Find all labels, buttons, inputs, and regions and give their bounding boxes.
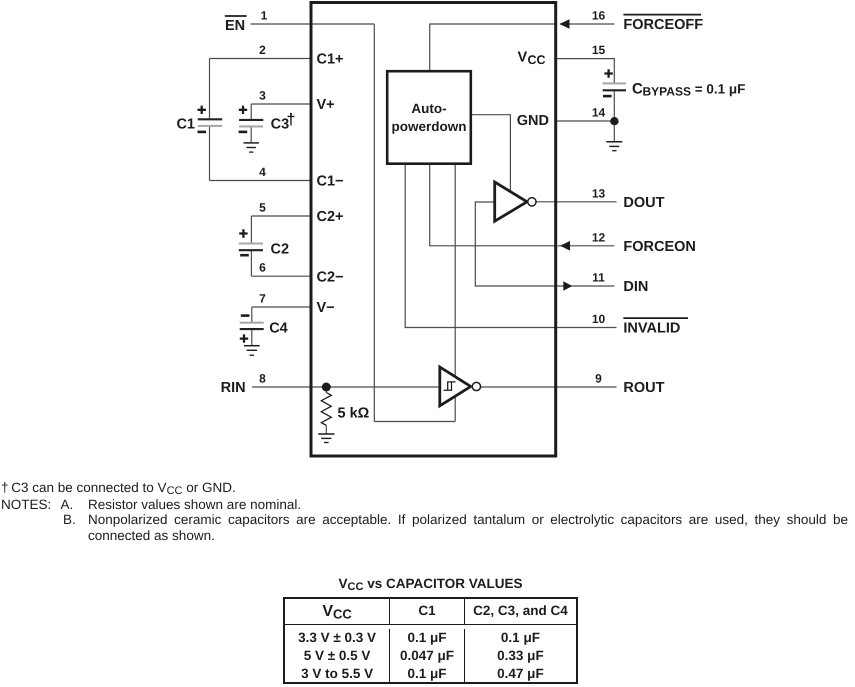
wire pin6 C2- (251, 275, 311, 277)
wire pin3 V+ (251, 103, 311, 105)
receiver triangle (ROUT buffer) (440, 367, 471, 406)
table VCC vs capacitor values (283, 597, 578, 685)
svg-text:Auto-: Auto- (411, 101, 446, 116)
wire pin4 C1- (210, 180, 312, 182)
svg-text:5: 5 (259, 201, 266, 215)
wire EN riser down (373, 24, 375, 422)
svg-text:FORCEON: FORCEON (623, 239, 696, 255)
wire pin16 FORCEOFF (560, 23, 614, 25)
svg-text:BYPASS: BYPASS (643, 85, 691, 99)
notes line B (63, 512, 76, 527)
wire C1 top riser (209, 59, 211, 120)
wire CBYPASS ground riser (613, 121, 615, 142)
wire pin15 VCC (556, 59, 615, 84)
svg-text:8: 8 (259, 372, 266, 386)
capacitor C3 (239, 106, 296, 133)
wire C3 top riser (250, 104, 252, 120)
ground under resistor (318, 434, 334, 443)
label INVALID with overline (623, 318, 688, 337)
svg-text:RIN: RIN (221, 380, 246, 396)
arrow pin11 (563, 281, 572, 291)
table body column 2 (390, 629, 465, 682)
wire CBYPASS bottom riser (613, 90, 615, 121)
junction node RIN (322, 383, 331, 392)
table body column 3 (465, 629, 576, 680)
footnote line (1, 480, 236, 499)
wire C2 bottom riser (250, 250, 252, 276)
junction node pin14 (610, 117, 618, 125)
IC box (311, 3, 556, 457)
capacitor C2 (239, 229, 289, 257)
Auto-powerdown box U-APD (387, 71, 471, 164)
svg-text:15: 15 (592, 43, 606, 57)
capacitor C4 (240, 316, 288, 343)
ground under C4 (244, 346, 260, 356)
notes line A (1, 497, 51, 512)
arrow pin16 (560, 19, 570, 29)
wire pin8 RIN to receiver input (252, 386, 440, 388)
wire C3 ground riser (250, 126, 252, 142)
driver inversion bubble (528, 198, 536, 206)
svg-text:ROUT: ROUT (623, 380, 664, 396)
wire pin5 C2+ (251, 215, 311, 217)
svg-text:CC: CC (528, 53, 546, 67)
wire FORCEOFF internal (430, 24, 556, 71)
svg-text:5 kΩ: 5 kΩ (338, 406, 370, 422)
pin label VCC (518, 50, 546, 68)
wire C2 top riser (250, 216, 252, 244)
svg-text:12: 12 (592, 230, 606, 244)
svg-text:9: 9 (595, 372, 602, 386)
resistor R 5k (321, 393, 331, 426)
svg-text:11: 11 (592, 271, 605, 285)
svg-text:V+: V+ (317, 97, 335, 113)
svg-text:C: C (632, 81, 643, 98)
wire pin10 INVALID (556, 327, 617, 329)
svg-text:3: 3 (259, 89, 266, 103)
wire receiver enable riser (APD to EN net) (454, 164, 456, 422)
svg-text:GND: GND (517, 113, 549, 129)
receiver hysteresis symbol (444, 382, 456, 390)
receiver inversion bubble (472, 382, 480, 390)
svg-text:C1: C1 (176, 116, 195, 132)
ground under C3 (244, 143, 259, 152)
wire C1 bottom riser (209, 126, 211, 181)
svg-text:= 0.1 μF: = 0.1 μF (691, 82, 745, 97)
svg-text:C2+: C2+ (317, 209, 344, 225)
svg-text:16: 16 (592, 8, 606, 22)
svg-text:†: † (287, 112, 296, 129)
wire pin1 EN to IC (250, 23, 374, 25)
svg-text:C4: C4 (269, 321, 288, 337)
label EN with overline (225, 16, 247, 34)
ground under CBYPASS (606, 142, 622, 151)
svg-text:C2: C2 (271, 242, 290, 258)
svg-text:DIN: DIN (623, 279, 648, 295)
svg-text:14: 14 (592, 106, 606, 120)
wire C4 ground riser (251, 329, 253, 346)
wire pin12 FORCEON (558, 245, 615, 247)
svg-text:DOUT: DOUT (623, 195, 664, 211)
wire APD enable to driver (471, 115, 511, 192)
svg-text:C2−: C2− (317, 269, 344, 285)
table header row (285, 599, 390, 626)
capacitor CBYPASS (603, 69, 626, 96)
capacitor C1 (176, 106, 222, 133)
wire pin11 DIN (556, 285, 615, 287)
svg-text:EN: EN (225, 18, 245, 34)
table body column 1 (285, 629, 390, 682)
label FORCEOFF with overline (623, 15, 703, 34)
table title (283, 576, 578, 595)
svg-text:FORCEOFF: FORCEOFF (623, 17, 703, 33)
svg-text:INVALID: INVALID (623, 321, 680, 337)
svg-text:V: V (518, 50, 528, 66)
svg-text:7: 7 (259, 292, 266, 306)
label CBYPASS value (632, 81, 745, 99)
svg-text:4: 4 (259, 165, 266, 179)
op-amp driver triangle (DOUT buffer) (495, 182, 527, 221)
wire EN bottom run (374, 421, 455, 423)
svg-text:13: 13 (592, 186, 606, 200)
svg-text:C1+: C1+ (317, 52, 344, 68)
wire APD to INVALID (405, 164, 555, 328)
wire DIN riser to driver input (475, 202, 555, 286)
wire APD to FORCEON (430, 164, 556, 246)
wire C4 top riser (251, 307, 253, 323)
wire resistor stubs (325, 387, 327, 434)
wire pin2 C1+ (210, 58, 312, 60)
wire pin7 V- (252, 306, 311, 308)
svg-text:C1−: C1− (317, 174, 344, 190)
svg-text:1: 1 (261, 8, 268, 22)
wire pin14 GND (556, 120, 615, 122)
arrow pin12 (560, 241, 570, 251)
svg-text:6: 6 (259, 261, 266, 275)
wire pin9 ROUT (480, 386, 616, 388)
svg-text:powerdown: powerdown (392, 119, 467, 134)
svg-text:10: 10 (592, 312, 606, 326)
wire pin13 DOUT (536, 201, 617, 203)
svg-text:V−: V− (317, 300, 335, 316)
svg-text:2: 2 (259, 43, 266, 57)
